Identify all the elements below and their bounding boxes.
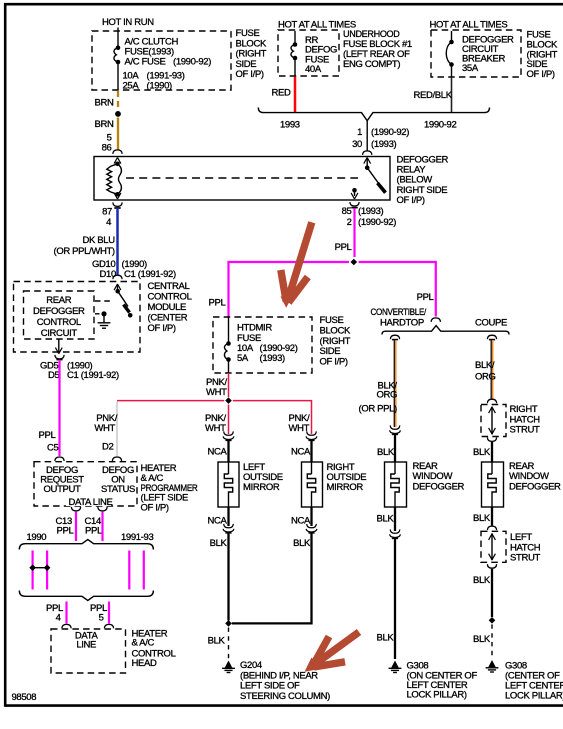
- wire PPL horizontal run: [229, 262, 350, 263]
- wire NCA below left mirror: [227, 507, 229, 526]
- pins 4 and 5 of control head: [62, 624, 114, 628]
- svg-text:LOCK PILLAR): LOCK PILLAR): [505, 691, 563, 702]
- year merge brace lower: [19, 591, 153, 601]
- svg-text:OUTPUT: OUTPUT: [44, 484, 82, 495]
- year split brace upper: [19, 532, 153, 550]
- svg-text:HOT IN RUN: HOT IN RUN: [102, 17, 154, 28]
- svg-text:LEFT: LEFT: [510, 532, 532, 543]
- CCM switch: [114, 284, 132, 318]
- pin 1 / 30 of defogger relay: [352, 127, 409, 155]
- svg-text:(CENTER: (CENTER: [148, 313, 188, 324]
- svg-text:DEFOGGER: DEFOGGER: [33, 306, 85, 317]
- bus brace joining feeds: [258, 108, 489, 131]
- wire from HOT IN RUN: [117, 28, 119, 46]
- svg-text:4: 4: [56, 613, 61, 624]
- svg-text:4: 4: [106, 217, 111, 228]
- CCM output arrow: [55, 339, 62, 354]
- svg-text:(1993): (1993): [358, 206, 384, 217]
- svg-text:C1 (1991-92): C1 (1991-92): [67, 370, 119, 381]
- svg-text:STRUT: STRUT: [510, 553, 540, 564]
- wire BLK dashed to G204: [228, 628, 230, 660]
- svg-text:RED: RED: [272, 88, 291, 99]
- svg-text:DEFOGGER: DEFOGGER: [509, 482, 561, 493]
- connector in-line convertible: [377, 425, 400, 458]
- svg-text:PPL: PPL: [417, 292, 434, 303]
- svg-text:G204: G204: [240, 660, 262, 671]
- svg-text:MIRROR: MIRROR: [327, 482, 364, 493]
- body style split brace: [371, 307, 510, 335]
- left hatch strut: [481, 531, 541, 563]
- wire PNK/WHT from fuse: [228, 373, 230, 397]
- svg-text:1: 1: [357, 127, 362, 138]
- right outside mirror heater M2: [302, 462, 367, 507]
- relay control dashed line: [126, 177, 358, 179]
- svg-text:CIRCUIT: CIRCUIT: [41, 328, 78, 339]
- svg-text:35A: 35A: [462, 63, 479, 74]
- svg-text:WHT: WHT: [205, 423, 226, 434]
- wire BLK below defogger (coupe): [491, 507, 493, 526]
- svg-text:REAR: REAR: [46, 295, 71, 306]
- svg-text:98508: 98508: [12, 692, 37, 703]
- wire BRN solid: [117, 118, 119, 150]
- svg-text:BLK: BLK: [293, 538, 311, 549]
- central control module box: [14, 281, 192, 352]
- svg-text:FUSE: FUSE: [320, 315, 344, 326]
- connector in-line conv lower: [390, 529, 401, 538]
- fuse A/C CLUTCH FUSE / A/C FUSE: [114, 36, 211, 91]
- wire PPL to body split: [417, 292, 441, 322]
- arrow annotation 2: [305, 632, 360, 672]
- node HOT AT ALL TIMES (right): [430, 20, 508, 31]
- svg-text:LINE: LINE: [76, 640, 96, 651]
- wire BLK/ORG coupe: [475, 340, 496, 399]
- svg-text:(1990-92): (1990-92): [358, 217, 396, 228]
- svg-text:87: 87: [102, 207, 112, 218]
- relay coil: [107, 158, 122, 200]
- svg-text:40A: 40A: [305, 64, 322, 75]
- svg-text:ENG COMPT): ENG COMPT): [343, 59, 400, 70]
- svg-text:C1 (1991-92): C1 (1991-92): [124, 269, 176, 280]
- svg-text:BLK: BLK: [210, 538, 228, 549]
- svg-text:OF I/P): OF I/P): [141, 502, 169, 513]
- svg-text:WHT: WHT: [206, 387, 227, 398]
- svg-text:ORG: ORG: [377, 390, 398, 401]
- svg-text:OF I/P): OF I/P): [148, 323, 176, 334]
- svg-text:BLK: BLK: [208, 636, 226, 647]
- svg-text:2: 2: [347, 217, 352, 228]
- wire PNK/WHT to left mirror: [228, 405, 230, 435]
- svg-text:CONVERTIBLE/: CONVERTIBLE/: [371, 307, 427, 318]
- fuse RR DEFOG FUSE 40A: [291, 31, 337, 76]
- svg-text:BLK: BLK: [473, 575, 491, 586]
- wire PPL C14: [101, 512, 103, 541]
- svg-text:ORG: ORG: [475, 372, 496, 383]
- pin 5 / 86 of defogger relay: [102, 132, 122, 154]
- node diamonds linking 1990 wires: [29, 564, 50, 571]
- svg-text:D5: D5: [48, 370, 60, 381]
- wire bus to relay pin 30: [366, 121, 368, 151]
- svg-text:5: 5: [99, 613, 104, 624]
- svg-text:(1993): (1993): [371, 139, 397, 150]
- wire PPL from relay 85: [353, 208, 355, 257]
- svg-text:OF I/P): OF I/P): [527, 69, 555, 80]
- svg-text:A/C FUSE: A/C FUSE: [125, 56, 166, 67]
- svg-text:PPL: PPL: [209, 297, 226, 308]
- wire DK BLU: [116, 208, 119, 275]
- svg-text:OF I/P): OF I/P): [236, 69, 264, 80]
- svg-text:LOCK PILLAR): LOCK PILLAR): [407, 690, 467, 701]
- pin 85 / 2 of defogger relay: [342, 202, 397, 228]
- wire PPL to pin 4: [65, 602, 67, 624]
- svg-text:NCA: NCA: [207, 447, 227, 458]
- node BRN splice: [115, 111, 121, 117]
- connector left hatch strut bottom: [487, 564, 496, 568]
- connector right hatch strut top: [487, 399, 496, 403]
- svg-text:WINDOW: WINDOW: [509, 471, 549, 482]
- svg-text:5A: 5A: [237, 353, 249, 364]
- svg-text:86: 86: [102, 143, 112, 154]
- svg-text:MIRROR: MIRROR: [243, 482, 280, 493]
- circuit breaker DEFOGGER CIRCUIT BREAKER 35A: [446, 31, 514, 77]
- connector right hatch strut bottom: [487, 437, 496, 441]
- svg-text:SIDE: SIDE: [320, 346, 341, 357]
- svg-text:BRN: BRN: [95, 119, 114, 130]
- pins C13 C14 of programmer: [56, 507, 108, 537]
- wire BLK right mirror to junction: [232, 533, 312, 623]
- fuse block (right side of I/P) box top-left: [92, 28, 267, 90]
- svg-text:PPL: PPL: [335, 242, 352, 253]
- svg-text:OF I/P): OF I/P): [320, 356, 348, 367]
- wire NCA below right mirror: [310, 507, 312, 526]
- wire RED: [294, 77, 297, 113]
- svg-text:BLK: BLK: [473, 447, 491, 458]
- svg-text:C5: C5: [47, 443, 59, 454]
- svg-text:(1993): (1993): [260, 353, 286, 364]
- label diagram number: [12, 692, 37, 703]
- wire PPL to pin 5: [108, 602, 110, 624]
- connector in-line left mirror: [207, 431, 233, 457]
- svg-text:BRN: BRN: [95, 98, 114, 109]
- svg-text:RED/BLK: RED/BLK: [414, 90, 453, 101]
- underhood fuse block #1 box: [278, 29, 412, 76]
- rear window defogger (coupe): [482, 461, 562, 507]
- node junction BLK mirrors: [225, 620, 232, 627]
- arrow annotation 1: [281, 222, 312, 307]
- wire BRN dashed: [117, 91, 119, 109]
- svg-text:D2: D2: [102, 442, 114, 453]
- svg-text:CONTROL: CONTROL: [37, 317, 81, 328]
- wire fuse to BRN splice: [117, 64, 119, 90]
- wire PPL down to HTDMIR fuse: [227, 262, 229, 317]
- svg-text:STEERING COLUMN): STEERING COLUMN): [240, 691, 330, 702]
- ground inside CCM: [98, 311, 111, 328]
- wire BLK below defogger (conv): [394, 507, 396, 531]
- svg-text:(1990-92): (1990-92): [371, 127, 409, 138]
- svg-text:25A: 25A: [123, 80, 140, 91]
- right hatch strut: [481, 404, 540, 437]
- wire PPL C13: [75, 512, 77, 541]
- svg-text:& A/C: & A/C: [132, 638, 155, 649]
- svg-text:CONTROL: CONTROL: [148, 292, 192, 303]
- svg-text:BLK: BLK: [473, 634, 491, 645]
- wire NCA to left mirror: [227, 441, 229, 462]
- pin GD10/D10 of CCM: [92, 259, 176, 280]
- node junction BLK coupe: [489, 617, 496, 624]
- connector in-line right mirror: [291, 431, 317, 457]
- connector convertible branch: [390, 335, 399, 339]
- svg-text:(1990-92): (1990-92): [173, 56, 211, 67]
- connector in-line right mirror lower: [293, 524, 317, 549]
- fuse HTDMIR FUSE: [224, 317, 297, 373]
- svg-text:1991-93: 1991-93: [121, 532, 153, 543]
- svg-text:HEAD: HEAD: [132, 658, 157, 669]
- svg-text:BLOCK: BLOCK: [320, 326, 351, 337]
- wire BLK strut to junction: [491, 569, 493, 617]
- wire BLK long run to G308: [394, 539, 396, 659]
- relay U1 DEFOGGER RELAY box: [94, 155, 449, 206]
- svg-text:(OR PPL/WHT): (OR PPL/WHT): [54, 246, 115, 257]
- svg-text:WINDOW: WINDOW: [413, 471, 453, 482]
- svg-text:CENTRAL: CENTRAL: [148, 281, 190, 292]
- connector left hatch strut top: [487, 526, 496, 530]
- svg-text:85: 85: [342, 206, 352, 217]
- rear defogger control circuit box: [24, 291, 95, 339]
- ground G308 (lock pillar) coupe: [486, 660, 563, 702]
- svg-text:30: 30: [352, 139, 362, 150]
- node HOT IN RUN: [102, 17, 154, 28]
- pin GD5/D5 of CCM: [40, 355, 119, 381]
- svg-text:BLK: BLK: [377, 447, 395, 458]
- svg-text:NCA: NCA: [291, 447, 311, 458]
- svg-text:MODULE: MODULE: [148, 302, 187, 313]
- node junction PPL: [351, 259, 358, 266]
- relay switch: [351, 158, 385, 200]
- svg-text:(OR PPL): (OR PPL): [359, 404, 398, 415]
- svg-text:STATUS: STATUS: [101, 484, 135, 495]
- svg-text:STRUT: STRUT: [510, 425, 540, 436]
- fuse block (right side of I/P) box HTDMIR: [213, 315, 351, 373]
- svg-text:DEFOGGER: DEFOGGER: [413, 482, 465, 493]
- left outside mirror heater M1: [218, 462, 283, 507]
- node HOT AT ALL TIMES (left): [278, 20, 356, 31]
- svg-text:DK BLU: DK BLU: [83, 235, 116, 246]
- wire PNK/WHT horizontal run: [117, 400, 224, 402]
- pin C5 of programmer: [47, 443, 64, 462]
- svg-text:HARDTOP: HARDTOP: [380, 318, 424, 329]
- wire PNK/WHT to D2: [116, 402, 118, 457]
- connector coupe branch: [487, 335, 496, 339]
- svg-text:NCA: NCA: [291, 516, 311, 527]
- svg-text:OF I/P): OF I/P): [397, 195, 425, 206]
- ground G204: [222, 660, 330, 702]
- wires PPL 1990 pair: [31, 551, 33, 590]
- node junction PNK/WHT: [225, 397, 232, 404]
- wire NCA to right mirror: [310, 441, 312, 462]
- wires PPL 1991-93 pair: [128, 551, 130, 590]
- label DATA LINE on box edge: [66, 497, 113, 509]
- svg-text:1993: 1993: [280, 120, 300, 131]
- wire BLK/ORG convertible: [359, 340, 398, 427]
- rear window defogger (convertible/hardtop): [385, 461, 465, 507]
- svg-text:BLK: BLK: [377, 513, 395, 524]
- svg-text:DATA LINE: DATA LINE: [69, 497, 113, 508]
- wire BLK strut to defogger (coupe): [491, 442, 493, 462]
- svg-text:BLK: BLK: [473, 513, 491, 524]
- wire PPL CCM to programmer: [58, 360, 60, 456]
- wire BLK left mirror to junction: [227, 533, 229, 620]
- svg-text:(1990): (1990): [147, 80, 173, 91]
- CCM internal dashed links: [95, 300, 113, 302]
- connector in-line left mirror lower: [210, 524, 234, 549]
- pin 87 / 4 of defogger relay: [102, 202, 122, 228]
- heater A/C programmer box: [34, 462, 198, 514]
- wire BLK to rear window defogger (conv): [394, 435, 396, 462]
- svg-text:WHT: WHT: [94, 423, 115, 434]
- svg-text:COUPE: COUPE: [475, 318, 507, 329]
- svg-text:BLK: BLK: [377, 633, 395, 644]
- svg-text:1990: 1990: [27, 532, 47, 543]
- svg-text:BLK/: BLK/: [475, 360, 495, 371]
- svg-text:PPL: PPL: [57, 526, 74, 537]
- svg-text:PPL: PPL: [39, 430, 56, 441]
- ground G308 (lock pillar center): [389, 661, 478, 701]
- svg-text:HOT AT ALL TIMES: HOT AT ALL TIMES: [430, 20, 508, 31]
- wire BLK dashed to G308 coupe: [491, 624, 493, 658]
- pin D2 of programmer: [102, 442, 122, 462]
- svg-text:1990-92: 1990-92: [424, 120, 456, 131]
- svg-text:PPL: PPL: [85, 526, 102, 537]
- fuse block (right side of I/P) box top-right: [431, 30, 558, 81]
- wire RED/BLK: [451, 77, 453, 112]
- heater A/C control head DATA LINE box: [51, 628, 176, 673]
